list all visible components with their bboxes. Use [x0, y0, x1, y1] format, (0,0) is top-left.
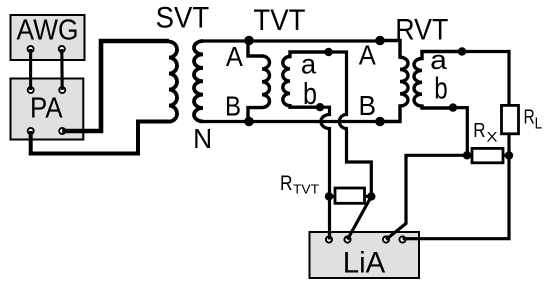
- svg-text:R: R: [280, 171, 293, 195]
- terminal LiA 1: [326, 236, 332, 242]
- svg-text:L: L: [535, 116, 543, 133]
- svg-text:PA: PA: [30, 92, 63, 124]
- terminal PA top-right: [59, 87, 65, 93]
- wire TVT a down to R_TVT right (hops over bottom bus): [329, 52, 372, 196]
- wire top bus (SVT secondary top to TVT A and RVT A): [203, 39, 380, 42]
- wire AWG right output to PA right input: [60, 49, 64, 90]
- junction TVT b: [316, 103, 324, 111]
- junction TVT a: [324, 48, 332, 56]
- junction R_X left: [463, 151, 471, 159]
- terminal pads (white interiors of all connector circles): [26, 45, 407, 244]
- terminal AWG left: [28, 46, 34, 52]
- svg-text:B: B: [358, 90, 376, 121]
- wire PA bottom-left output to SVT primary bottom: [31, 122, 169, 154]
- wire RVT a to R_L top: [462, 52, 509, 106]
- svg-text:AWG: AWG: [17, 15, 79, 47]
- transformer SVT secondary winding: [194, 41, 203, 121]
- svg-text:a: a: [301, 48, 317, 79]
- junction R_TVT right: [367, 192, 375, 200]
- junction RVT A on top bus: [375, 36, 385, 46]
- resistor R_TVT: [335, 188, 365, 203]
- junction R_X right / R_L bottom: [505, 151, 513, 159]
- resistor R_L: [502, 105, 519, 133]
- svg-text:b: b: [434, 71, 448, 105]
- junction RVT b: [449, 103, 457, 111]
- terminal LiA 4: [399, 236, 405, 242]
- transformer TVT primary winding with leads: [248, 41, 270, 122]
- transformer RVT secondary winding with leads: [414, 52, 462, 109]
- instrument LiA (lock-in amplifier box): [310, 232, 420, 280]
- terminal AWG right: [59, 46, 65, 52]
- svg-text:RVT: RVT: [395, 14, 448, 47]
- svg-text:LiA: LiA: [343, 247, 386, 280]
- svg-text:TVT: TVT: [293, 182, 319, 197]
- wire R_L bottom through R_X right node down to LiA terminal 4: [403, 134, 510, 239]
- instrument AWG (arbitrary waveform generator box): [11, 15, 85, 61]
- terminal PA bottom-left: [28, 128, 34, 134]
- transformer RVT primary winding with leads: [380, 41, 408, 122]
- junction TVT A on top bus: [244, 36, 254, 46]
- resistor R_X: [472, 148, 503, 162]
- wire PA bottom-right output to SVT primary top: [62, 41, 169, 131]
- wire bottom bus N (SVT secondary bottom to TVT B and RVT B): [203, 120, 380, 123]
- transformer SVT primary winding: [169, 42, 177, 122]
- terminal PA bottom-right: [59, 128, 65, 134]
- wire TVT b down to R_TVT left and LiA terminal 1 (hops over bottom bus): [320, 107, 330, 239]
- wire R_TVT right node to LiA terminal 2 (diagonal): [348, 196, 372, 239]
- svg-text:SVT: SVT: [156, 2, 210, 35]
- svg-text:R: R: [473, 120, 485, 142]
- junction RVT a: [458, 47, 466, 55]
- wire R_X leads: [467, 154, 509, 157]
- wire R_TVT leads: [329, 195, 371, 198]
- wire AWG left output to PA left input: [29, 49, 32, 90]
- terminal LiA 2: [344, 236, 350, 242]
- svg-text:N: N: [193, 123, 212, 154]
- junction RVT B on bottom bus: [375, 117, 385, 127]
- wire RVT b down to R_X left node: [453, 108, 467, 156]
- svg-text:A: A: [226, 41, 243, 72]
- svg-text:X: X: [487, 130, 498, 145]
- junction TVT B on bottom bus: [244, 117, 254, 127]
- junction R_TVT left: [325, 192, 333, 200]
- terminal PA top-left: [28, 87, 34, 93]
- svg-text:b: b: [303, 77, 317, 111]
- svg-text:B: B: [225, 90, 241, 121]
- instrument PA (power amplifier box): [11, 79, 84, 140]
- svg-text:A: A: [359, 40, 376, 71]
- svg-text:TVT: TVT: [253, 4, 305, 37]
- svg-text:R: R: [524, 107, 535, 129]
- wire R_X left node to LiA terminal 3: [386, 155, 467, 239]
- terminal LiA 3: [383, 236, 389, 242]
- transformer TVT secondary winding with leads: [283, 52, 329, 107]
